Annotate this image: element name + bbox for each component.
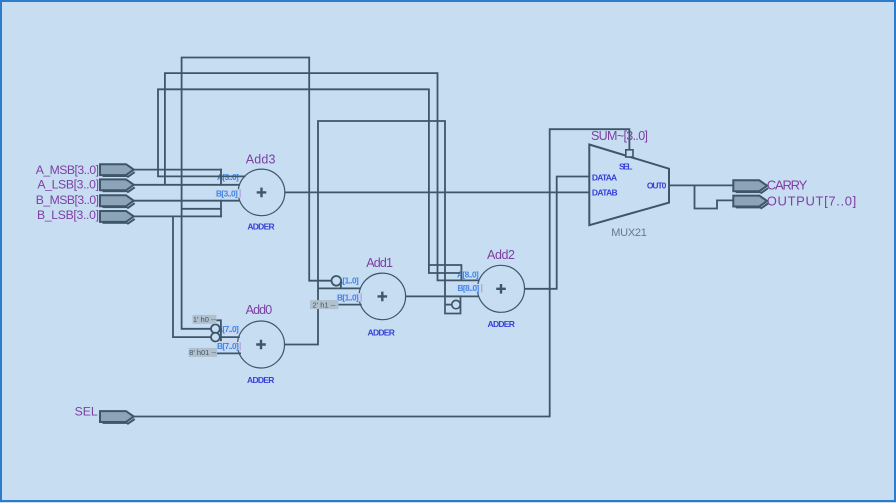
wire: join bar B_MSB/B_LSB	[220, 200, 222, 218]
svg-text:B[1..0]: B[1..0]	[337, 292, 359, 302]
svg-text:B[7..0]: B[7..0]	[217, 341, 239, 351]
pin CARRY (output)	[733, 180, 767, 191]
wire: net B-bus top rail (Add0.A ring path via V182, H57.5, V309 down to Add1 ring, jog to Add1.A)	[182, 58, 341, 329]
wire: net Add3.A / Add2.A rail (V158 up, H89.3, V429.5 down, H273)	[158, 89, 460, 273]
svg-text:ADDER: ADDER	[368, 327, 395, 337]
wire: MUX OUT0 to CARRY pin and jog to OUTPUT pin	[669, 185, 734, 208]
wire: B_LSB pin wire	[134, 215, 222, 217]
select bubble of MUX21	[626, 150, 633, 157]
wire: 8'h01 wire to Add0.B2	[217, 352, 241, 354]
svg-text:ADDER: ADDER	[488, 319, 515, 329]
node: group bead ring2 on Add0.B	[211, 333, 220, 342]
label B[3..0] of Add3	[215, 189, 240, 197]
svg-text:SUM~[3..0]: SUM~[3..0]	[591, 129, 648, 143]
label B[7..0] of Add0	[216, 342, 240, 350]
pin OUTPUT[7..0] (output)	[733, 196, 767, 207]
adder Add2	[478, 265, 525, 312]
svg-text:OUT0: OUT0	[647, 180, 667, 190]
svg-text:B[8..0]: B[8..0]	[458, 283, 480, 293]
svg-text:OUTPUT[7..0]: OUTPUT[7..0]	[767, 193, 856, 208]
pin B_LSB[3..0]	[100, 211, 134, 222]
wire: H265 segment with jog down to Add2.A wire	[429, 265, 462, 280]
label B[1..0] of Add1	[336, 293, 361, 301]
svg-text:DATAA: DATAA	[592, 172, 617, 182]
svg-text:ADDER: ADDER	[247, 375, 274, 385]
svg-text:DATAB: DATAB	[592, 188, 618, 198]
wire: Add1.out to Add2.B	[406, 295, 479, 297]
svg-text:B_MSB[3..0]: B_MSB[3..0]	[36, 193, 99, 207]
svg-text:1' h0 --: 1' h0 --	[193, 315, 217, 324]
adder Add0	[238, 321, 285, 368]
wire: 2'h1 wire to Add1.B	[338, 304, 361, 306]
wire: SEL net from pin up to MUX select bubble	[134, 129, 629, 416]
node: group bead ring1 on Add0.A	[211, 324, 220, 333]
adder Add3	[238, 169, 285, 216]
wire: H208.3 connector	[182, 208, 221, 210]
svg-text:SEL: SEL	[619, 162, 632, 172]
svg-text:MUX21: MUX21	[611, 227, 647, 239]
wire: B_MSB pin wire to Add3.CIN	[134, 200, 240, 202]
svg-text:Add1: Add1	[366, 256, 393, 270]
wire: Add3.out to MUX DATAB	[285, 191, 589, 193]
svg-text:Add3: Add3	[246, 152, 276, 166]
pin A_MSB[3..0]	[100, 164, 134, 175]
svg-text:A[8..0]: A[8..0]	[457, 270, 479, 280]
svg-text:8' h01 --: 8' h01 --	[189, 348, 217, 357]
wire: net Add0.out to Add1.A riser and H121 rail to bead box	[285, 121, 446, 345]
pin B_MSB[3..0]	[100, 195, 134, 206]
svg-text:Add2: Add2	[487, 248, 515, 262]
wire: 1'h0 stub and join bar at Add0	[216, 320, 221, 341]
label A[7..0] of Add0	[216, 325, 240, 333]
wire: A_LSB pin wire to Add3.B	[134, 184, 240, 186]
wire: net Add0.B rail (H337 from Add0 up to B_LSB wire T)	[173, 216, 240, 337]
wire: Add1.A port wire	[318, 287, 360, 289]
svg-text:A_LSB[3..0]: A_LSB[3..0]	[37, 178, 99, 192]
constant 8'h01	[189, 348, 217, 357]
node: group bead ring on Add1.A	[332, 276, 342, 286]
constant 2'h1	[310, 300, 338, 309]
svg-text:B_LSB[3..0]: B_LSB[3..0]	[37, 208, 99, 222]
wire: A_MSB pin wire	[134, 169, 222, 171]
node: group box on Add2.B	[445, 296, 461, 313]
wire: net A_LSB riser to H73.2 rail over to Add2.A	[165, 73, 479, 280]
label B[8..0] of Add2	[457, 284, 482, 292]
svg-text:ADDER: ADDER	[247, 222, 274, 232]
svg-text:Add0: Add0	[246, 303, 273, 317]
wire: Add2.out up to MUX DATAA	[525, 177, 590, 289]
svg-text:2' h1 --: 2' h1 --	[313, 300, 337, 309]
wire: tick into bead of Add2.B group	[445, 304, 452, 306]
wire: join bar A_MSB/A_LSB	[220, 169, 222, 186]
mux MUX21	[589, 145, 669, 226]
svg-text:CARRY: CARRY	[767, 177, 808, 192]
pin A_LSB[3..0]	[100, 179, 134, 190]
svg-text:B[3..0]: B[3..0]	[216, 189, 238, 199]
svg-text:A_MSB[3..0]: A_MSB[3..0]	[36, 163, 99, 177]
pin SEL	[100, 411, 134, 422]
adder Add1	[359, 273, 406, 320]
svg-text:SEL: SEL	[75, 404, 98, 418]
constant 1'h0	[193, 315, 217, 324]
